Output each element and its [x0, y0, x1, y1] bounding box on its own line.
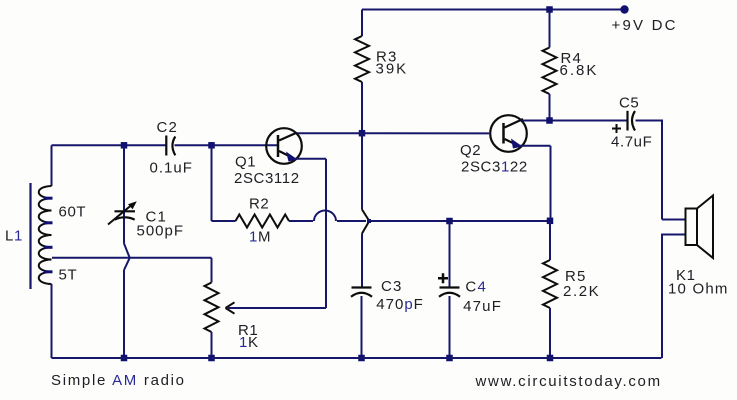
svg-text:6.8K: 6.8K	[560, 62, 599, 79]
transistor Q1	[266, 128, 302, 164]
wire to R1 wiper	[228, 307, 326, 309]
wire Q2 emitter across	[519, 145, 551, 147]
resistor R3	[355, 36, 369, 82]
svg-text:470pF: 470pF	[376, 296, 424, 313]
svg-text:C5: C5	[619, 95, 639, 112]
junction R5 bottom	[547, 355, 554, 362]
junction top rail / R4	[546, 6, 553, 13]
junction R5 / Q2 emitter node	[547, 218, 554, 225]
C5 polarity plus	[612, 124, 621, 133]
wire jog crossing at mid bus	[362, 210, 369, 234]
junction C1 top	[121, 142, 128, 149]
inductor L1 core bar	[29, 183, 31, 289]
svg-text:1K: 1K	[239, 334, 259, 351]
inductor L1 winding 60T	[39, 186, 52, 260]
junction C2 / R2 / base node	[208, 142, 215, 149]
wire Q2 emitter down to bus	[550, 146, 552, 218]
junction C4 top	[446, 218, 453, 225]
wire tap corner down to R1	[211, 258, 213, 283]
resistor R1 potentiometer	[205, 283, 219, 333]
svg-text:Simple AM radio: Simple AM radio	[51, 372, 186, 389]
junction Q1 collector node	[359, 130, 366, 137]
junction Q2 collector node	[546, 117, 553, 124]
wire R1 bottom lead	[211, 332, 213, 358]
junction C1 bottom	[121, 355, 128, 362]
transistor Q2	[490, 115, 527, 152]
wire C1 bottom lead	[123, 270, 125, 358]
wire R5 bottom lead	[549, 308, 551, 358]
wire speaker lower stub	[662, 235, 686, 359]
terminal +9V DC	[620, 5, 628, 13]
inductor L1 crossover ticks	[44, 197, 53, 200]
svg-text:Q1: Q1	[235, 154, 256, 171]
svg-text:60T: 60T	[59, 204, 87, 221]
resistor R5	[543, 260, 557, 308]
wire L1 tap line	[52, 257, 212, 259]
svg-text:47uF: 47uF	[463, 298, 502, 315]
wire bus corner to R2	[212, 220, 236, 222]
junction C4 bottom	[446, 355, 453, 362]
wire C4 bottom lead	[449, 296, 451, 358]
capacitor C1 variable, top lead	[123, 145, 125, 243]
svg-text:1M: 1M	[249, 229, 271, 246]
wire R3 top lead	[361, 10, 363, 37]
wire top-left node line	[52, 144, 166, 146]
wire bus jog to C4 to R5	[369, 220, 550, 222]
wire speaker upper stub	[662, 219, 686, 221]
wire R3 bottom lead to collector node	[361, 82, 363, 133]
wire bus to jog	[337, 220, 366, 222]
wire hop over emitter line	[314, 211, 336, 222]
capacitor C1 arrow	[108, 206, 131, 225]
wire bottom ground rail	[52, 357, 662, 359]
svg-text:2SC3122: 2SC3122	[461, 159, 528, 176]
wire Q1 collector to Q2 base	[296, 132, 489, 134]
svg-text:4.7uF: 4.7uF	[611, 134, 652, 151]
svg-text:Q2: Q2	[460, 142, 481, 159]
wire R2 right	[289, 220, 313, 222]
svg-text:C2: C2	[157, 119, 179, 136]
junction C3 bottom	[358, 355, 365, 362]
capacitor C1 plates	[115, 210, 136, 212]
svg-text:2SC3112: 2SC3112	[234, 170, 300, 187]
svg-text:0.1uF: 0.1uF	[150, 159, 193, 176]
svg-text:500pF: 500pF	[137, 223, 185, 240]
wire C4 top lead	[449, 221, 451, 287]
svg-text:L1: L1	[5, 228, 23, 245]
speaker K1	[686, 209, 698, 246]
wire emitter line down	[325, 159, 327, 308]
svg-text:10 Ohm: 10 Ohm	[668, 281, 729, 298]
wire left rail top	[51, 145, 53, 186]
wire R4 bottom lead	[549, 94, 551, 121]
junction R1 bottom	[208, 355, 215, 362]
wire C2 node down to R2	[211, 145, 213, 221]
wire Q1 emitter across	[294, 158, 326, 160]
capacitor C5	[626, 111, 628, 131]
svg-text:5T: 5T	[59, 267, 78, 284]
wire C3 top lead	[361, 234, 363, 288]
wire Q2 collector to node	[522, 120, 547, 122]
capacitor C4	[440, 286, 460, 288]
svg-text:2.2K: 2.2K	[563, 283, 600, 300]
wire C5 left lead	[553, 120, 627, 122]
wire collector node down to bus jog	[361, 133, 363, 209]
wire C5 right to speaker	[636, 121, 663, 220]
inductor L1 winding 5T	[39, 260, 52, 285]
capacitor C2	[165, 136, 167, 156]
resistor R2	[236, 215, 290, 228]
svg-text:C3: C3	[381, 278, 403, 295]
junction jog touch point	[367, 219, 371, 223]
C4 polarity plus	[438, 273, 448, 283]
wire C3 bottom lead	[361, 296, 363, 358]
wire R5 top lead	[549, 221, 551, 260]
resistor R4	[543, 48, 557, 95]
svg-text:+9V DC: +9V DC	[612, 17, 678, 34]
wire C1 jog over tap line	[124, 244, 130, 271]
wire top +9V rail	[362, 9, 621, 11]
wire R4 top lead	[549, 10, 551, 48]
svg-text:R2: R2	[249, 196, 269, 213]
wire C2 right to Q1 base	[175, 144, 278, 146]
capacitor C3	[352, 286, 372, 288]
R1 wiper arrowhead	[226, 302, 235, 313]
svg-text:C4: C4	[465, 279, 487, 296]
svg-text:www.circuitstoday.com: www.circuitstoday.com	[475, 373, 662, 390]
svg-text:39K: 39K	[376, 60, 409, 77]
wire left rail bottom	[51, 284, 53, 358]
